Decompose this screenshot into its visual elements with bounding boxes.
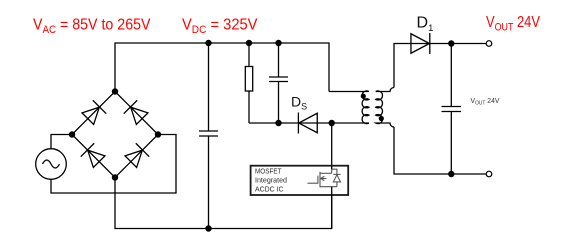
svg-text:DS: DS <box>291 94 307 112</box>
bridge diode bottom-right <box>124 143 149 168</box>
capacitor C3 output <box>450 44 452 107</box>
svg-text:VDC = 325V: VDC = 325V <box>182 17 258 37</box>
node C2 top <box>275 40 281 46</box>
bridge diode top-left <box>81 100 106 125</box>
terminal output plus <box>486 41 492 47</box>
wire bridge bottom to ground rail <box>115 178 332 229</box>
transistor Q1 MOSFET symbol <box>308 169 337 187</box>
svg-text:VAC = 85V to 265V: VAC = 85V to 265V <box>33 17 151 37</box>
wire snubber bottom to primary <box>249 122 369 124</box>
node bridge right <box>155 131 161 137</box>
node bridge top <box>112 88 118 94</box>
op-amp U1 box MOSFET Integrated ACDC IC <box>251 166 349 195</box>
diode body of Q1 <box>333 174 340 186</box>
svg-text:ACDC IC: ACDC IC <box>255 186 284 193</box>
transformer T1 secondary polarity dot <box>379 116 384 121</box>
node drain <box>329 120 335 126</box>
node D1 cathode <box>448 40 454 46</box>
resistor R1 snubber <box>248 43 250 67</box>
wire bridge diamond <box>72 92 158 178</box>
wire top rail VDC <box>115 43 329 92</box>
wire AC source bottom to bridge right node <box>51 135 176 194</box>
svg-text:VOUT 24V: VOUT 24V <box>471 98 500 107</box>
node bridge left <box>69 131 75 137</box>
transformer T1 primary winding <box>329 91 369 124</box>
diode DS <box>298 113 317 134</box>
svg-text:D1: D1 <box>417 15 434 34</box>
node output bottom <box>448 171 454 177</box>
node bridge bottom <box>112 174 118 180</box>
node C1 top <box>205 40 211 46</box>
wire drain inside box <box>331 166 333 170</box>
svg-text:VOUT 24V: VOUT 24V <box>486 14 540 34</box>
wire secondary bottom to output <box>394 127 486 174</box>
AC source V1 <box>36 149 67 180</box>
terminal output minus <box>486 171 492 177</box>
node R1 top <box>246 40 252 46</box>
svg-text:MOSFET: MOSFET <box>255 168 282 175</box>
node C2 bottom <box>275 120 281 126</box>
diode D1 output <box>411 33 430 54</box>
bridge diode bottom-left <box>81 143 106 168</box>
transformer T1 primary polarity dot <box>361 94 366 99</box>
node C1 bottom <box>205 225 211 231</box>
capacitor C2 snubber <box>278 43 280 77</box>
svg-text:Integrated: Integrated <box>255 177 287 184</box>
wire AC source top to bridge left node <box>51 135 72 150</box>
wire source to ground rail <box>331 187 333 229</box>
wire drain node down to MOSFET <box>331 123 333 169</box>
wire secondary top to D1 <box>394 44 486 88</box>
transformer T1 secondary winding <box>376 88 394 128</box>
bridge diode top-right <box>124 100 149 125</box>
capacitor C1 bulk <box>208 43 210 131</box>
